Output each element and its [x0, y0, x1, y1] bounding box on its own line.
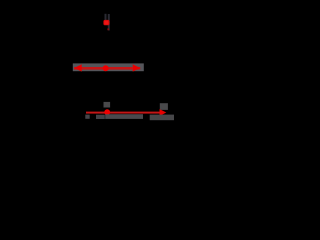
current arrow A3 (bottom right) — [160, 109, 167, 116]
label L6 (below wire W2, right) — [150, 115, 174, 121]
component U1 body (red blob) — [103, 20, 109, 25]
node N2 (bottom junction dot) — [104, 109, 110, 115]
node N1 (middle junction dot) — [103, 65, 109, 71]
label L3 (below wire W2, left) — [85, 115, 89, 119]
current arrow A1 (left) — [74, 64, 82, 71]
component U1 lead (right vertical) — [108, 14, 110, 31]
label L4 (below wire W2, small) — [96, 115, 105, 119]
wire W2 (bottom red conductor) — [86, 112, 161, 114]
component U1 lead (top) — [105, 14, 107, 21]
component U1 pin mark (red speck) — [107, 28, 109, 30]
wire W1 (red conductor) — [74, 67, 140, 70]
label L5 (below wire W2, long) — [105, 114, 143, 119]
wire W1 highlight bar (middle) — [73, 63, 144, 71]
label L1 (above node N2) — [104, 102, 111, 108]
component U1 body highlight — [104, 21, 108, 25]
label L2 (above arrow A3) — [160, 103, 168, 110]
current arrow A2 (right) — [133, 64, 141, 71]
